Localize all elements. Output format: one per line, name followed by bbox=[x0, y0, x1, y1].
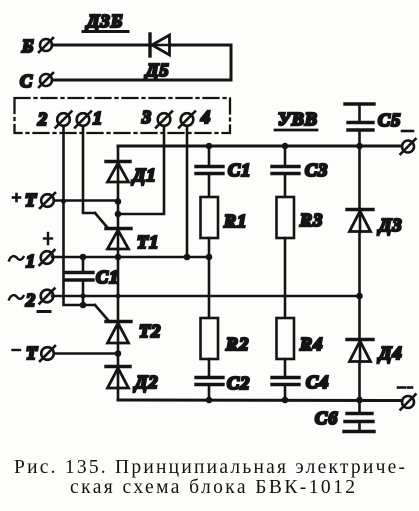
node +Т junction bbox=[115, 198, 122, 205]
svg-text:3: 3 bbox=[141, 107, 152, 127]
node R1 R2 junction bbox=[206, 254, 213, 261]
node bottom bus Д4 bbox=[356, 397, 363, 404]
wire Т2 to Д2 bbox=[117, 343, 120, 366]
svg-text:Б: Б bbox=[21, 36, 35, 56]
capacitor С4 bbox=[272, 359, 299, 400]
wire Д1 to Т1 bbox=[117, 182, 120, 228]
capacitor С6 bbox=[344, 400, 374, 432]
wire С5 node to Д3 bbox=[358, 146, 361, 209]
node terminal2/+Т junction bbox=[61, 198, 66, 203]
wire ~1 bus bbox=[52, 256, 209, 258]
wire Д4 to bottom bus bbox=[358, 362, 361, 400]
svg-text:УВВ: УВВ bbox=[278, 109, 318, 129]
node top bus С5 bbox=[356, 143, 363, 150]
node terminal3 junction bbox=[115, 211, 122, 218]
capacitor С1 bbox=[196, 146, 223, 197]
wire terminal2 down bbox=[64, 126, 96, 305]
wire +Т bbox=[54, 199, 118, 202]
terminal 2 bbox=[37, 109, 72, 129]
svg-text:2: 2 bbox=[25, 290, 36, 310]
label УВВ bbox=[275, 109, 318, 130]
diode Д4 bbox=[347, 340, 373, 363]
diode Д3 bbox=[347, 210, 373, 233]
capacitor С5 bbox=[345, 104, 374, 146]
svg-text:С6: С6 bbox=[315, 408, 338, 428]
wire ~1 to R2 bbox=[208, 257, 211, 318]
terminal С bbox=[20, 71, 53, 91]
terminal output top right bbox=[401, 139, 416, 154]
label ДЗБ bbox=[83, 11, 128, 32]
thyristor Т2 bbox=[106, 322, 131, 344]
svg-text:2: 2 bbox=[37, 109, 48, 129]
terminal ~1 bbox=[9, 250, 55, 271]
svg-text:Д3: Д3 bbox=[377, 215, 403, 235]
svg-text:R3: R3 bbox=[299, 210, 323, 230]
node С1 bottom ~2 junction bbox=[80, 293, 85, 298]
diode Д5 bbox=[150, 34, 170, 56]
terminal 3 bbox=[141, 107, 172, 128]
svg-text:С4: С4 bbox=[306, 372, 329, 392]
node Т1 cathode junction bbox=[115, 254, 122, 261]
wire terminal4 down bbox=[186, 126, 189, 257]
svg-text:Д1: Д1 bbox=[131, 165, 157, 185]
svg-text:Д5: Д5 bbox=[144, 60, 170, 80]
label minus top right bbox=[402, 130, 413, 133]
node ~2 crossing junction bbox=[116, 294, 121, 299]
svg-text:Т1: Т1 bbox=[137, 232, 159, 252]
wire Д3 to ~2 bbox=[358, 232, 361, 296]
svg-text:4: 4 bbox=[200, 107, 211, 127]
node С1 left top bbox=[80, 254, 87, 261]
svg-text:ская схема блока БВК-1012: ская схема блока БВК-1012 bbox=[70, 477, 355, 498]
node terminal4 junction bbox=[184, 254, 191, 261]
svg-text:R4: R4 bbox=[299, 334, 323, 354]
svg-text:Д4: Д4 bbox=[377, 343, 403, 363]
svg-text:ДЗБ: ДЗБ bbox=[85, 11, 124, 31]
node ~2 Д3 junction bbox=[356, 293, 363, 300]
diode Д2 bbox=[106, 367, 130, 389]
svg-text:С1: С1 bbox=[228, 160, 251, 180]
label minus bottom right bbox=[398, 386, 412, 389]
terminal Б bbox=[21, 36, 53, 56]
wire ~1 to Т2 bbox=[117, 257, 120, 321]
wire ~2 bus bbox=[52, 295, 360, 297]
node С1 gate junction bbox=[80, 302, 87, 309]
svg-text:Т2: Т2 bbox=[139, 321, 161, 341]
svg-text:1: 1 bbox=[93, 108, 103, 128]
label − polarity bbox=[38, 310, 50, 313]
wire -Т bbox=[54, 352, 118, 355]
terminal +Т bbox=[13, 190, 55, 210]
resistor R4 bbox=[277, 318, 295, 359]
svg-text:Рис. 135. Принципиальная элект: Рис. 135. Принципиальная электриче- bbox=[14, 457, 405, 478]
label + polarity bbox=[44, 237, 52, 239]
wire terminal1 down bbox=[83, 126, 95, 213]
svg-text:1: 1 bbox=[26, 251, 36, 271]
svg-text:С2: С2 bbox=[227, 373, 250, 393]
node -Т junction bbox=[115, 350, 122, 357]
wire terminal1 to T1 gate bbox=[95, 213, 107, 227]
svg-text:Д2: Д2 bbox=[133, 372, 159, 392]
thyristor Т1 bbox=[106, 229, 131, 250]
wire Б to loop bbox=[52, 44, 231, 47]
terminal -Т bbox=[13, 343, 56, 363]
node bottom bus C4 bbox=[282, 397, 289, 404]
resistor R2 bbox=[201, 318, 219, 359]
svg-text:Т: Т bbox=[25, 190, 37, 210]
wire Д1 top lead bbox=[117, 146, 120, 161]
terminal 1 bbox=[75, 108, 103, 128]
top bus bbox=[118, 145, 402, 148]
terminal ~2 bbox=[9, 289, 55, 311]
diode Д1 bbox=[106, 162, 130, 183]
wire R3 to R4 bbox=[284, 238, 287, 318]
svg-text:R2: R2 bbox=[225, 334, 249, 354]
bottom bus bbox=[118, 399, 402, 403]
capacitor С2 bbox=[196, 359, 223, 400]
svg-text:С: С bbox=[20, 71, 33, 91]
svg-text:Т: Т bbox=[26, 343, 38, 363]
capacitor С1 left bbox=[66, 257, 93, 305]
node top bus C1 bbox=[206, 143, 213, 150]
node top bus C3 bbox=[282, 143, 289, 150]
svg-text:R1: R1 bbox=[223, 211, 247, 231]
terminal output bottom right bbox=[401, 395, 416, 410]
svg-text:С5: С5 bbox=[378, 110, 401, 130]
wire loop right side bbox=[230, 45, 233, 80]
wire Д2 to bottom bus bbox=[117, 388, 120, 400]
wire ~2 to Д4 bbox=[358, 296, 361, 339]
resistor R1 bbox=[201, 197, 219, 238]
wire R1 to ~1 bbox=[208, 238, 211, 257]
svg-text:С1: С1 bbox=[96, 267, 119, 287]
wire Т1 to ~1 bbox=[117, 249, 120, 257]
terminal block (dash-dot box) bbox=[15, 98, 231, 133]
svg-text:С3: С3 bbox=[305, 160, 328, 180]
wire terminal3 down bbox=[118, 126, 164, 214]
terminal 4 bbox=[179, 107, 211, 128]
node bottom bus C2 bbox=[206, 397, 213, 404]
capacitor С3 bbox=[272, 146, 299, 197]
resistor R3 bbox=[277, 197, 295, 238]
wire С to loop bbox=[52, 79, 231, 82]
wire terminal2 to T2 gate bbox=[95, 305, 108, 320]
